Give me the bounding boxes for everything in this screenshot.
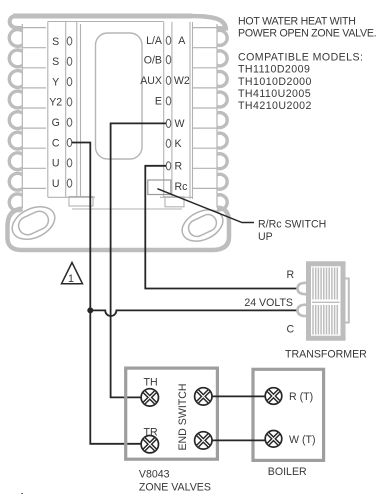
wire end switch to boiler R: [212, 395, 265, 397]
svg-text:W (T): W (T): [289, 434, 315, 446]
svg-text:C: C: [52, 137, 60, 149]
svg-text:BOILER: BOILER: [268, 466, 307, 478]
svg-text:L/A: L/A: [146, 35, 163, 47]
transformer winding: [313, 268, 337, 335]
right notch: [346, 279, 349, 323]
svg-text:TH: TH: [144, 376, 158, 388]
junction node: [87, 307, 93, 313]
screw terminal TR: [141, 436, 158, 453]
shelf line: [72, 208, 182, 210]
svg-text:HOT WATER HEAT WITH: HOT WATER HEAT WITH: [238, 15, 356, 27]
left terminal screws: [67, 37, 72, 187]
svg-text:E: E: [155, 96, 162, 108]
callout line R/Rc switch: [157, 189, 254, 223]
screw terminal end switch bottom: [195, 432, 212, 449]
svg-text:U: U: [52, 158, 60, 170]
svg-text:S: S: [52, 56, 59, 68]
svg-text:AUX: AUX: [140, 75, 162, 87]
screw terminal boiler W: [265, 431, 282, 448]
svg-text:O/B: O/B: [144, 54, 162, 66]
right scallops: [217, 30, 227, 209]
top-right description text: [238, 15, 376, 112]
screw terminal boiler R: [265, 388, 282, 405]
svg-text:V8043: V8043: [139, 469, 170, 481]
bottom tabs: [69, 197, 93, 207]
row separator lines left zone: [22, 28, 46, 189]
svg-text:U: U: [52, 178, 60, 190]
svg-text:ZONE VALVES: ZONE VALVES: [139, 481, 211, 493]
bottom-right oval screw hole: [177, 204, 228, 248]
svg-text:1: 1: [68, 273, 74, 285]
svg-text:R/Rc SWITCH: R/Rc SWITCH: [258, 219, 326, 231]
svg-text:W2: W2: [174, 75, 190, 87]
bottom body outline: [8, 208, 230, 250]
bottom-left oval screw hole: [7, 200, 60, 245]
note triangle 1: [62, 263, 83, 284]
wire end switch to boiler W: [212, 439, 265, 441]
wire: R terminal down to transformer R: [145, 166, 298, 289]
top cap bar: [13, 14, 192, 19]
svg-text:24 VOLTS: 24 VOLTS: [244, 297, 293, 309]
svg-text:UP: UP: [258, 231, 273, 243]
R/Rc switch slider: [148, 180, 171, 195]
svg-text:S: S: [52, 36, 59, 48]
inner panel outline: [48, 22, 193, 210]
svg-text:R: R: [175, 161, 183, 173]
svg-text:W: W: [175, 118, 185, 130]
svg-text:Rc: Rc: [175, 181, 189, 193]
top cap: [306, 261, 346, 266]
svg-text:R (T): R (T): [289, 391, 313, 403]
left scallop rail: [21, 24, 23, 209]
svg-text:TRANSFORMER: TRANSFORMER: [285, 349, 367, 361]
zone valve box: [126, 368, 218, 459]
svg-text:POWER OPEN ZONE VALVE.: POWER OPEN ZONE VALVE.: [238, 27, 376, 39]
wire: junction to transformer C with hop: [90, 310, 298, 316]
thermostat wallplate body: [8, 16, 230, 250]
svg-text:A: A: [178, 35, 186, 47]
svg-text:TH1110D2009: TH1110D2009: [238, 64, 310, 76]
left scallops: [9, 30, 22, 211]
svg-text:R: R: [287, 269, 295, 281]
top-left corner curl: [10, 16, 23, 28]
right post: [341, 262, 346, 341]
right scallop rail: [216, 24, 218, 208]
left terminal labels: [49, 36, 62, 190]
svg-text:G: G: [52, 117, 60, 129]
transformer: [298, 262, 349, 341]
transformer middle band: [312, 300, 340, 306]
terminal bumps: [298, 283, 307, 294]
svg-text:TH4210U2002: TH4210U2002: [238, 100, 312, 112]
svg-text:TH1010D2000: TH1010D2000: [238, 76, 312, 88]
screw terminal end switch top: [195, 388, 212, 405]
wire: C terminal down to junction and TR: [72, 143, 142, 444]
screw terminal TH: [141, 389, 158, 406]
bottom cap: [306, 336, 346, 341]
svg-text:TH4110U2005: TH4110U2005: [238, 88, 311, 100]
central opening: [96, 33, 143, 159]
svg-text:Y: Y: [52, 76, 59, 88]
svg-text:K: K: [175, 138, 182, 150]
right terminal labels (right of strip): [174, 35, 190, 193]
svg-text:END SWITCH: END SWITCH: [177, 383, 189, 450]
wire: W terminal down to TH: [111, 123, 166, 397]
boiler box: [253, 369, 324, 460]
top-right corner: [190, 16, 226, 31]
row separator lines right zone: [193, 28, 218, 189]
left post: [306, 262, 311, 341]
svg-text:C: C: [287, 324, 295, 336]
right terminal screws: [166, 36, 171, 170]
svg-text:Y2: Y2: [49, 97, 62, 109]
right terminal labels (left of strip): [140, 35, 163, 108]
svg-text:COMPATIBLE MODELS:: COMPATIBLE MODELS:: [238, 52, 363, 64]
